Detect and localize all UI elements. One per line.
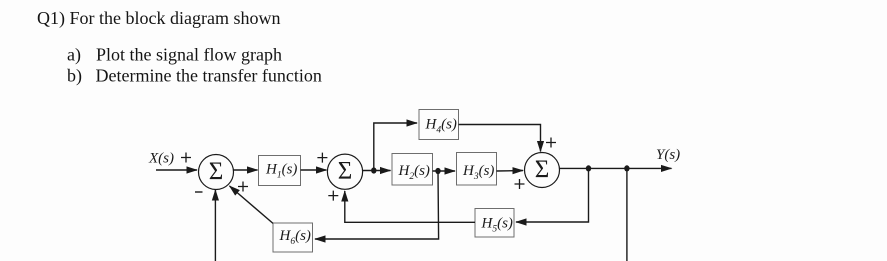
summing junction S2 [327, 154, 362, 189]
block H1(s) [259, 156, 301, 186]
wire H3 to S3 [497, 170, 524, 173]
wire S2 to H2 [363, 170, 391, 172]
svg-text:a): a) [67, 45, 81, 66]
block H4(s) [419, 110, 459, 140]
wire X(s) input arrow [156, 169, 197, 171]
svg-text:Σ: Σ [338, 158, 353, 185]
wire H5 to S2 bottom [345, 191, 475, 222]
svg-text:Plot the signal flow graph: Plot the signal flow graph [96, 45, 282, 65]
wire H4 to S3 top [459, 125, 541, 152]
svg-text:Σ: Σ [209, 158, 224, 185]
wire H1 to S2 [301, 169, 327, 171]
wire node B down to H6 [315, 171, 439, 239]
plus sign at S2 bottom input [328, 191, 338, 201]
minus sign at S1 lower input [195, 191, 203, 193]
node C junction dot on output [586, 165, 591, 171]
summing junction S1 [199, 155, 234, 190]
svg-text:Y(s): Y(s) [656, 147, 680, 163]
block H2(s) [392, 154, 433, 186]
wire node B to H3 [433, 170, 456, 172]
svg-text:b): b) [67, 66, 82, 87]
block H5(s) [475, 209, 514, 238]
svg-text:Σ: Σ [535, 156, 550, 183]
wire S1 to H1 [234, 169, 258, 171]
summing junction S3 [525, 153, 560, 188]
node A junction dot after S2 [371, 167, 376, 173]
wire node D down off page [626, 168, 628, 261]
svg-text:Determine the transfer functio: Determine the transfer function [96, 66, 322, 86]
wire S3 output to Y(s) [560, 167, 672, 169]
wire node C down to H5 [516, 168, 589, 222]
wire H6 diagonal to S1 [230, 186, 274, 223]
plus sign at S1 diagonal input [238, 182, 248, 192]
node D junction dot on output [624, 165, 629, 171]
svg-text:Q1) For the block diagram show: Q1) For the block diagram shown [37, 8, 280, 29]
wire tap node A up to H4 [374, 123, 417, 171]
plus sign at S3 left input [515, 179, 525, 189]
svg-text:X(s): X(s) [148, 151, 174, 167]
plus sign at S2 left input [317, 153, 327, 163]
block H3(s) [457, 153, 497, 186]
block H6(s) [273, 223, 313, 252]
plus sign at S3 top input [546, 138, 556, 148]
wire S1 bottom vertical input [214, 190, 216, 261]
plus sign at X(s) input [181, 153, 191, 163]
node B junction dot after H2 [435, 168, 440, 174]
